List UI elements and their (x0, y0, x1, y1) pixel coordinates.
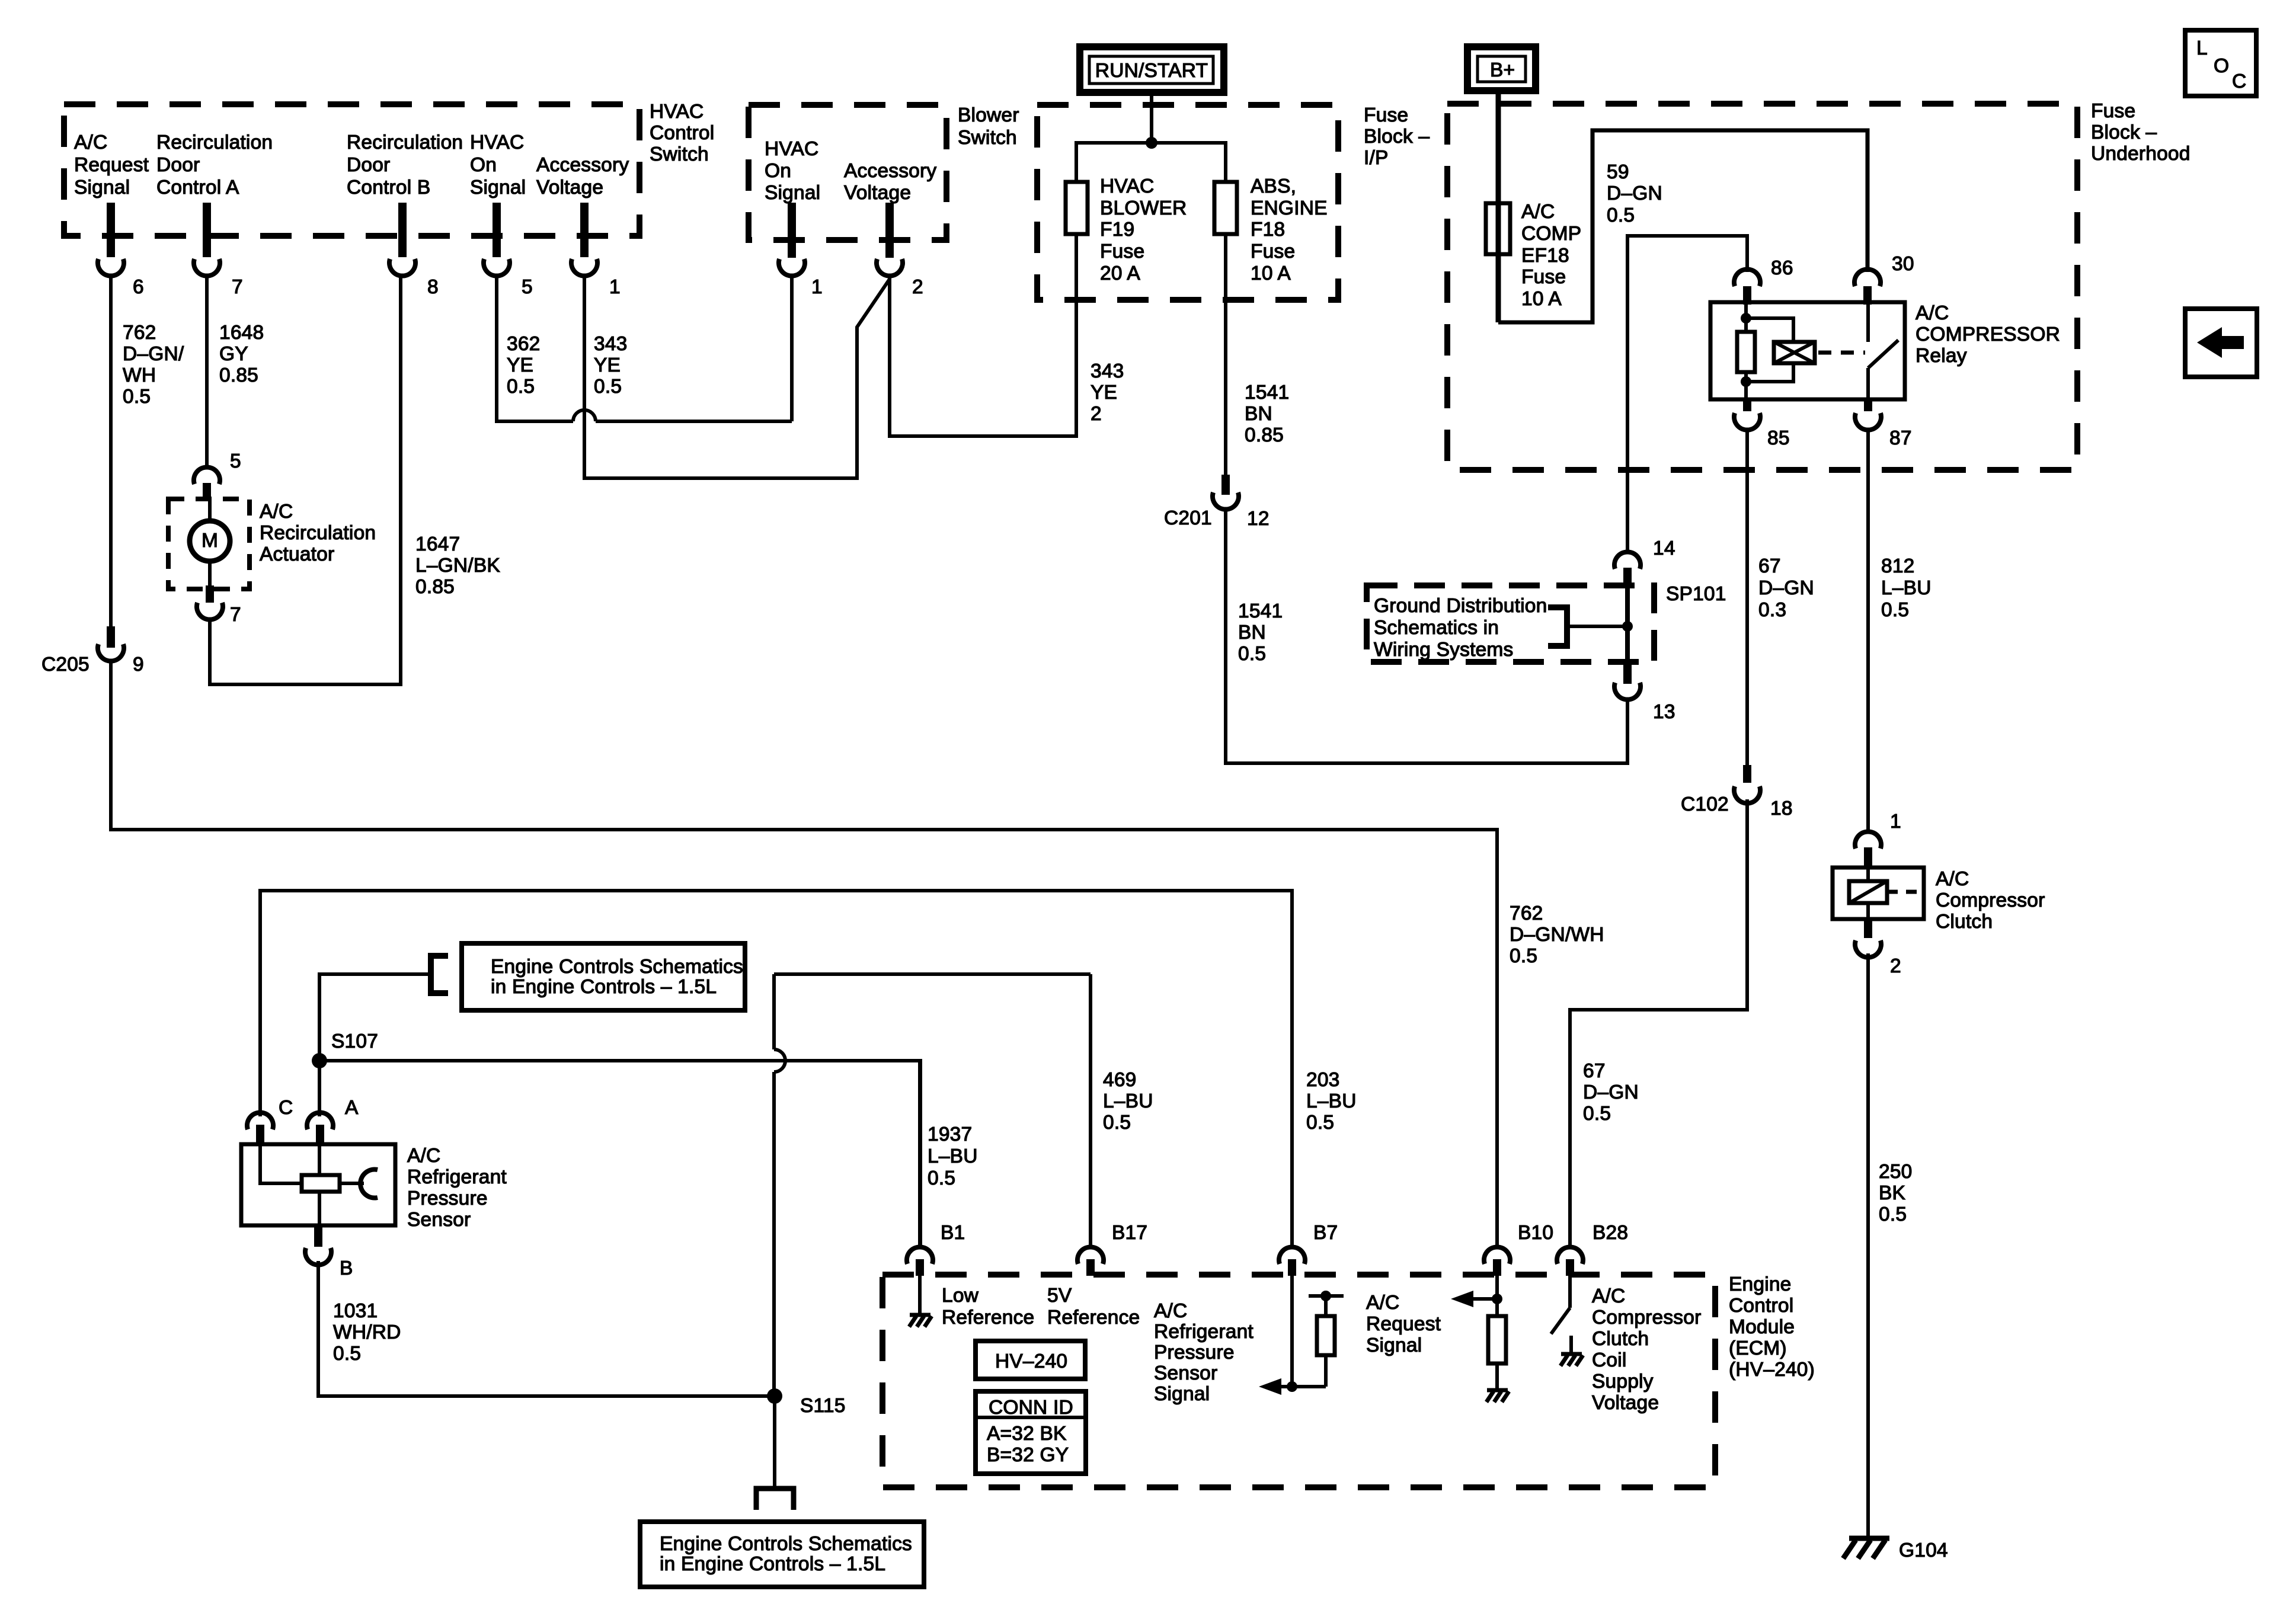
relay actuating dashes (1818, 351, 1865, 355)
svg-text:Underhood: Underhood (2091, 143, 2191, 165)
svg-text:Voltage: Voltage (844, 182, 911, 204)
svg-text:1: 1 (609, 276, 621, 298)
svg-text:(ECM): (ECM) (1729, 1337, 1787, 1359)
svg-text:Block –: Block – (1364, 126, 1430, 148)
svg-text:762: 762 (1510, 902, 1543, 924)
wire 469 down to B17 (1089, 974, 1092, 1246)
svg-text:250: 250 (1879, 1161, 1913, 1183)
svg-text:0.5: 0.5 (1103, 1112, 1131, 1134)
Engine Controls Schematics box 2 (640, 1522, 924, 1587)
B10 internal circuit (1451, 1275, 1509, 1402)
svg-text:Accessory: Accessory (844, 160, 936, 182)
A/C Request Signal label (1366, 1292, 1441, 1356)
svg-text:87: 87 (1889, 427, 1912, 449)
Low Reference label (942, 1285, 1034, 1329)
svg-text:Supply: Supply (1592, 1371, 1654, 1393)
svg-text:2: 2 (912, 276, 923, 298)
wire 1031 from pin B to S115 (318, 1261, 775, 1396)
pin 6 of HVAC control switch (98, 203, 144, 298)
clutch pin 1 connector (1855, 811, 1901, 868)
ECM pin B28 connector (1557, 1222, 1628, 1276)
sensor pin C connector (247, 1097, 293, 1144)
svg-text:L: L (2196, 37, 2208, 59)
wire label 67 D-GN 0.3 (1758, 555, 1814, 621)
svg-text:B28: B28 (1593, 1222, 1628, 1244)
relay pin 86 connector (1734, 257, 1793, 305)
A/C Recirculation Actuator dashed box (168, 499, 250, 589)
svg-text:Signal: Signal (765, 182, 820, 204)
wire 362 from pin 5 to blower pin 1 (hop over 343 wire) (497, 276, 792, 421)
wire 762 from pin 6 to C205 (109, 276, 113, 626)
ECM dashed box (882, 1275, 1715, 1487)
clutch label (1936, 868, 2045, 933)
svg-text:Refrigerant: Refrigerant (407, 1166, 507, 1188)
S107 splice (312, 1030, 378, 1068)
svg-text:M: M (202, 530, 218, 552)
wire from S107 up to engine controls bracket (319, 974, 431, 1061)
svg-text:Fuse: Fuse (1364, 104, 1408, 126)
svg-text:COMPRESSOR: COMPRESSOR (1916, 324, 2060, 345)
svg-text:HV–240: HV–240 (995, 1350, 1067, 1372)
svg-text:YE: YE (594, 354, 621, 376)
svg-text:Actuator: Actuator (260, 543, 334, 565)
A/C COMPRESSOR Relay box (1710, 302, 1905, 399)
svg-text:A/C: A/C (1366, 1292, 1399, 1314)
svg-text:A/C: A/C (74, 132, 107, 153)
Blower Switch label (958, 104, 1019, 149)
svg-text:B7: B7 (1313, 1222, 1338, 1244)
svg-text:Voltage: Voltage (536, 177, 603, 199)
svg-text:RUN/START: RUN/START (1095, 60, 1208, 82)
svg-text:1648: 1648 (219, 322, 264, 344)
svg-text:7: 7 (230, 604, 241, 626)
svg-text:0.85: 0.85 (1245, 424, 1284, 446)
svg-text:0.5: 0.5 (1583, 1103, 1611, 1125)
B+ power feed box (1467, 47, 1536, 91)
svg-text:1541: 1541 (1238, 600, 1283, 622)
svg-text:0.5: 0.5 (1306, 1112, 1334, 1134)
wire 67 from relay 85 to C102 (1745, 431, 1749, 765)
svg-text:1031: 1031 (333, 1300, 378, 1322)
wire label 1031 WH/RD 0.5 (333, 1300, 401, 1365)
actuator label (260, 501, 376, 565)
svg-text:9: 9 (133, 654, 144, 676)
wire label 469 L-BU 0.5 (1103, 1069, 1153, 1134)
svg-text:I/P: I/P (1364, 147, 1389, 169)
svg-text:Clutch: Clutch (1936, 911, 1993, 933)
svg-text:BK: BK (1879, 1182, 1905, 1204)
blower switch pin 1 (779, 203, 823, 298)
svg-text:B+: B+ (1490, 59, 1515, 81)
svg-text:Wiring Systems: Wiring Systems (1374, 639, 1513, 661)
svg-text:ENGINE: ENGINE (1251, 197, 1328, 219)
wire from RUN/START (1150, 92, 1153, 143)
svg-text:HVAC: HVAC (765, 138, 818, 160)
wire label 362 YE 0.5 (507, 333, 541, 398)
svg-text:Voltage: Voltage (1592, 1392, 1659, 1414)
wire label 762 D-GN/WH 0.5 (123, 322, 184, 408)
svg-text:S107: S107 (331, 1030, 378, 1052)
wire label 762 D-GN/WH 0.5 (right) (1510, 902, 1604, 967)
svg-text:HVAC: HVAC (650, 101, 703, 123)
A/C Compressor Clutch box (1833, 868, 1924, 919)
sensor pin A connector (307, 1097, 359, 1144)
HVAC Control Switch dashed box (64, 104, 639, 236)
wire 762 from C205 down and right to B10 (111, 661, 1497, 1246)
relay switch (1868, 302, 1898, 399)
A/C Compressor Clutch Coil Supply Voltage label (1592, 1285, 1701, 1414)
svg-text:20 A: 20 A (1100, 263, 1140, 284)
RUN/START power feed box (1080, 47, 1224, 92)
fork symbol (756, 1489, 794, 1510)
svg-text:Switch: Switch (650, 143, 709, 165)
wire label 343 YE 2 (1091, 360, 1124, 425)
wire 343 from pin 1 to blower pin 2 (584, 276, 890, 478)
svg-text:D–GN: D–GN (1758, 577, 1814, 599)
svg-text:F18: F18 (1251, 219, 1285, 241)
svg-text:Refrigerant: Refrigerant (1154, 1321, 1253, 1343)
svg-text:GY: GY (219, 343, 248, 365)
svg-text:30: 30 (1892, 253, 1914, 275)
svg-text:Engine Controls Schematics: Engine Controls Schematics (491, 956, 743, 978)
svg-text:0.5: 0.5 (1879, 1204, 1907, 1225)
wire label 1648 GY 0.85 (219, 322, 264, 386)
svg-text:7: 7 (232, 276, 243, 298)
wire 59 from fuse EF18 to relay pin 30 (1498, 130, 1868, 322)
svg-text:A/C: A/C (1936, 868, 1969, 890)
svg-text:Engine Controls Schematics: Engine Controls Schematics (660, 1533, 912, 1555)
connector C201 pin 12 (1164, 475, 1269, 530)
svg-text:L–BU: L–BU (1103, 1090, 1153, 1112)
A/C Refrigerant Pressure Sensor Signal label (1154, 1300, 1253, 1405)
svg-text:C: C (279, 1097, 293, 1119)
wire from S107 down to sensor pin A (318, 1061, 321, 1116)
SP101 splice wire and dot (1622, 585, 1633, 662)
ground G104 (1843, 1538, 1948, 1561)
wire 1541 from C201 to SP101 (1226, 510, 1627, 763)
svg-text:Accessory: Accessory (536, 154, 629, 176)
svg-text:COMP: COMP (1521, 223, 1581, 245)
svg-text:EF18: EF18 (1521, 245, 1569, 267)
pin 7 of HVAC control switch (194, 203, 243, 298)
svg-text:203: 203 (1306, 1069, 1340, 1091)
bracket to ground distribution text (1548, 607, 1627, 646)
svg-text:6: 6 (133, 276, 144, 298)
svg-text:Request: Request (74, 154, 149, 176)
svg-text:B: B (340, 1257, 353, 1279)
svg-text:A/C: A/C (1916, 302, 1949, 324)
svg-text:A/C: A/C (1154, 1300, 1187, 1322)
actuator pin 7 connector (197, 585, 241, 626)
svg-text:BN: BN (1245, 403, 1272, 425)
svg-text:S115: S115 (800, 1395, 846, 1417)
svg-text:B10: B10 (1518, 1222, 1553, 1244)
HVAC Control Switch label (650, 101, 714, 165)
svg-text:D–GN/WH: D–GN/WH (1510, 924, 1604, 946)
pin 1 of HVAC control switch (571, 203, 621, 298)
wire label 203 L-BU 0.5 (1306, 1069, 1357, 1134)
Fuse Block Underhood dashed box (1447, 104, 2077, 470)
relay pin 85 connector (1734, 399, 1790, 449)
svg-text:Recirculation: Recirculation (347, 132, 463, 153)
bracket to engine controls box 1 (431, 956, 448, 993)
svg-text:Recirculation: Recirculation (156, 132, 273, 153)
wire from S115 down to engine controls box 2 (773, 1396, 776, 1489)
svg-text:Blower: Blower (958, 104, 1019, 126)
svg-text:C205: C205 (41, 654, 89, 676)
B28 internal switch to ground (1551, 1275, 1583, 1366)
wire C to B7 long run (260, 891, 1292, 1246)
svg-text:Control: Control (1729, 1295, 1793, 1317)
sensor label (407, 1145, 507, 1231)
ground distribution reference text (1374, 595, 1547, 661)
svg-text:10 A: 10 A (1521, 288, 1562, 310)
svg-text:8: 8 (427, 276, 439, 298)
svg-text:18: 18 (1770, 798, 1793, 820)
svg-text:C: C (2232, 71, 2246, 92)
Engine Controls Schematics box 1 (462, 943, 745, 1010)
SP101 dashed box (1367, 585, 1654, 662)
svg-text:5: 5 (230, 450, 241, 472)
HV-240 table (976, 1341, 1085, 1379)
svg-text:Fuse: Fuse (2091, 100, 2135, 122)
svg-text:Schematics in: Schematics in (1374, 617, 1499, 639)
wire label 812 L-BU 0.5 (1881, 555, 1932, 621)
SP101 pin 14 connector (1614, 537, 1675, 585)
svg-text:Compressor: Compressor (1936, 889, 2045, 911)
wire to both fuses (1076, 143, 1226, 182)
svg-text:Control B: Control B (347, 177, 430, 199)
svg-text:14: 14 (1653, 537, 1675, 559)
svg-text:Recirculation: Recirculation (260, 522, 376, 544)
clutch pin 2 connector (1855, 919, 1901, 977)
svg-text:0.5: 0.5 (1607, 204, 1635, 226)
svg-text:86: 86 (1771, 257, 1793, 279)
svg-text:C201: C201 (1164, 507, 1212, 529)
ECM pin B1 connector (907, 1061, 965, 1276)
svg-text:Signal: Signal (1154, 1383, 1210, 1405)
Blower Switch dashed box (749, 105, 946, 240)
relay pin 87 connector (1855, 399, 1912, 449)
svg-text:F19: F19 (1100, 219, 1134, 241)
pin 8 of HVAC control switch (389, 203, 439, 298)
svg-text:2: 2 (1091, 403, 1102, 425)
svg-text:Door: Door (156, 154, 200, 176)
relay label (1916, 302, 2060, 367)
svg-text:Request: Request (1366, 1313, 1441, 1335)
svg-text:0.85: 0.85 (415, 576, 455, 598)
CONN ID table (976, 1391, 1086, 1474)
svg-text:469: 469 (1103, 1069, 1137, 1091)
svg-text:0.5: 0.5 (507, 376, 535, 398)
wire from B+ to fuse EF18 (1496, 91, 1501, 322)
svg-text:L–BU: L–BU (928, 1145, 978, 1167)
svg-text:0.5: 0.5 (1238, 643, 1266, 665)
svg-text:D–GN/: D–GN/ (123, 343, 184, 365)
svg-text:in Engine Controls – 1.5L: in Engine Controls – 1.5L (660, 1553, 885, 1575)
S115 splice (767, 1388, 846, 1417)
svg-text:L–BU: L–BU (1306, 1090, 1357, 1112)
svg-text:0.5: 0.5 (928, 1167, 955, 1189)
svg-text:Relay: Relay (1916, 345, 1967, 367)
svg-text:Clutch: Clutch (1592, 1328, 1649, 1350)
svg-text:Signal: Signal (470, 177, 526, 199)
svg-text:L–GN/BK: L–GN/BK (415, 555, 500, 577)
Fuse Block Underhood label (2091, 100, 2191, 165)
wire 67 from C102 to B28 (1570, 799, 1747, 1246)
svg-text:1937: 1937 (928, 1124, 972, 1145)
svg-text:Low: Low (942, 1285, 979, 1307)
svg-text:Control A: Control A (156, 177, 239, 199)
svg-text:A/C: A/C (407, 1145, 440, 1167)
svg-text:343: 343 (594, 333, 628, 355)
svg-text:BN: BN (1238, 622, 1266, 644)
connector C205 pin 9 (41, 626, 144, 676)
wire label 1937 L-BU 0.5 (928, 1124, 978, 1189)
fuse F18 ABS ENGINE 10A (1214, 175, 1328, 284)
svg-text:67: 67 (1758, 555, 1781, 577)
svg-text:On: On (765, 160, 791, 182)
svg-text:Door: Door (347, 154, 390, 176)
svg-text:On: On (470, 154, 497, 176)
A/C Refrigerant Pressure Sensor box (241, 1144, 395, 1225)
svg-text:Reference: Reference (1047, 1307, 1140, 1329)
LOC box (2185, 30, 2256, 96)
svg-text:343: 343 (1091, 360, 1124, 382)
svg-text:1541: 1541 (1245, 382, 1289, 404)
svg-text:Compressor: Compressor (1592, 1307, 1701, 1329)
svg-text:O: O (2214, 55, 2229, 77)
pin 5 of HVAC control switch (484, 203, 533, 298)
svg-text:812: 812 (1881, 555, 1915, 577)
actuator motor M (190, 499, 230, 588)
wire S107 to B1 (319, 1061, 920, 1246)
svg-text:A/C: A/C (1521, 201, 1555, 223)
svg-text:Engine: Engine (1729, 1273, 1792, 1295)
svg-text:Switch: Switch (958, 127, 1017, 149)
svg-text:762: 762 (123, 322, 156, 344)
svg-text:in Engine Controls – 1.5L: in Engine Controls – 1.5L (491, 976, 717, 998)
svg-text:(HV–240): (HV–240) (1729, 1359, 1815, 1381)
wire to relay pin 86 (1627, 236, 1747, 552)
wire label 1541 BN 0.85 (1245, 382, 1289, 446)
fuse EF18 A/C COMP 10A (1486, 201, 1581, 310)
svg-text:Control: Control (650, 122, 714, 144)
wire label 67 D-GN 0.5 (1583, 1060, 1639, 1125)
blower switch pin 2 (877, 203, 923, 298)
Fuse Block I/P label (1364, 104, 1430, 169)
Fuse Block I/P dashed box (1037, 105, 1338, 300)
svg-text:Block –: Block – (2091, 121, 2157, 143)
svg-text:59: 59 (1607, 161, 1629, 183)
svg-text:0.5: 0.5 (1510, 945, 1537, 967)
svg-text:0.5: 0.5 (333, 1343, 361, 1365)
svg-text:L–BU: L–BU (1881, 577, 1932, 599)
svg-text:Pressure: Pressure (407, 1188, 488, 1209)
relay coil circuit (1737, 302, 1793, 399)
svg-text:HVAC: HVAC (1100, 175, 1154, 197)
wire 250 BK to G104 (1866, 953, 1870, 1538)
SP101 pin 13 connector (1614, 662, 1675, 723)
svg-text:A/C: A/C (260, 501, 293, 523)
svg-text:0.3: 0.3 (1758, 599, 1786, 621)
svg-text:Sensor: Sensor (1154, 1362, 1217, 1384)
svg-text:WH: WH (123, 364, 156, 386)
vertical from y1644 to S115 with hop over S107 wire (774, 974, 785, 1396)
arrow box (2185, 309, 2257, 377)
ECM label (1729, 1273, 1815, 1381)
wire label 250 BK 0.5 (1879, 1161, 1913, 1225)
svg-text:5V: 5V (1047, 1285, 1072, 1307)
svg-text:Pressure: Pressure (1154, 1342, 1235, 1363)
svg-text:WH/RD: WH/RD (333, 1321, 401, 1343)
wire 1647 from actuator pin 7 to pin 8 (210, 276, 401, 684)
wire label 343 YE 0.5 (594, 333, 628, 398)
svg-text:Fuse: Fuse (1251, 241, 1295, 263)
svg-text:CONN ID: CONN ID (989, 1397, 1073, 1419)
5V Reference label (1047, 1285, 1140, 1329)
wire label 1541 BN 0.5 (1238, 600, 1283, 665)
relay coil symbol (1774, 342, 1815, 363)
svg-text:BLOWER: BLOWER (1100, 197, 1187, 219)
svg-text:A/C: A/C (1592, 1285, 1625, 1307)
svg-text:Fuse: Fuse (1521, 266, 1566, 288)
svg-text:YE: YE (1091, 382, 1117, 404)
relay pin 30 connector (1854, 253, 1914, 305)
svg-text:Ground Distribution: Ground Distribution (1374, 595, 1547, 617)
svg-text:67: 67 (1583, 1060, 1606, 1082)
wire 343-2 from blower pin 2 to fuse F19 (890, 234, 1076, 436)
svg-text:B17: B17 (1112, 1222, 1147, 1244)
svg-text:Signal: Signal (1366, 1334, 1422, 1356)
svg-text:HVAC: HVAC (470, 132, 524, 153)
wire S115 to B17 run (774, 972, 1091, 976)
wire 1541 from fuse F18 to C201 (1224, 234, 1227, 475)
svg-text:B1: B1 (941, 1222, 965, 1244)
svg-text:0.5: 0.5 (1881, 599, 1909, 621)
svg-text:1647: 1647 (415, 533, 460, 555)
svg-text:Sensor: Sensor (407, 1209, 471, 1231)
svg-text:A=32 BK: A=32 BK (987, 1423, 1067, 1445)
svg-text:85: 85 (1767, 427, 1790, 449)
svg-text:Fuse: Fuse (1100, 241, 1144, 263)
svg-text:ABS,: ABS, (1251, 175, 1296, 197)
svg-text:0.5: 0.5 (123, 386, 151, 408)
svg-text:G104: G104 (1899, 1539, 1948, 1561)
svg-text:YE: YE (507, 354, 533, 376)
fuse F19 HVAC BLOWER 20A (1066, 175, 1187, 284)
svg-text:0.85: 0.85 (219, 364, 258, 386)
svg-text:362: 362 (507, 333, 541, 355)
svg-text:A: A (345, 1097, 359, 1119)
svg-text:2: 2 (1890, 955, 1901, 977)
wire 1648 from pin 7 to actuator pin 5 (205, 276, 209, 466)
connector C102 pin 18 (1681, 765, 1793, 820)
junction dot (1146, 137, 1157, 149)
svg-text:C102: C102 (1681, 793, 1729, 815)
svg-text:Module: Module (1729, 1316, 1795, 1338)
svg-text:5: 5 (522, 276, 533, 298)
svg-text:10 A: 10 A (1251, 263, 1291, 284)
ECM pin B10 connector (1484, 1222, 1553, 1276)
wire label 59 D-GN 0.5 (1607, 161, 1662, 226)
svg-text:B=32 GY: B=32 GY (987, 1444, 1069, 1466)
svg-text:1: 1 (1890, 811, 1901, 833)
svg-text:Reference: Reference (942, 1307, 1034, 1329)
svg-text:13: 13 (1653, 701, 1675, 723)
svg-text:D–GN: D–GN (1583, 1081, 1639, 1103)
ECM pin B17 connector (1077, 1222, 1147, 1276)
